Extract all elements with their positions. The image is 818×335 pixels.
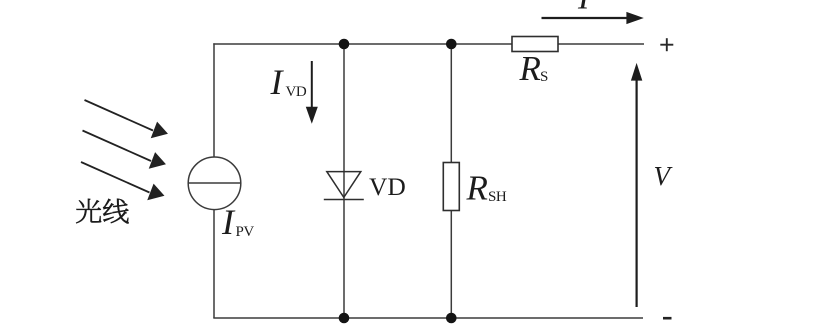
current source chord line xyxy=(188,182,241,184)
wire top bus from left branch to Rs xyxy=(213,43,512,45)
svg-text:R: R xyxy=(466,169,488,208)
wire top bus from Rs to + terminal xyxy=(558,43,644,45)
svg-text:I: I xyxy=(270,62,285,102)
diode VD cathode bar xyxy=(324,199,364,201)
terminal plus xyxy=(660,38,673,51)
current source IPV circle xyxy=(188,157,241,210)
light ray arrow 3 xyxy=(81,162,163,199)
terminal minus xyxy=(663,317,672,320)
label 光线 (drawn glyph outlines) xyxy=(76,199,128,224)
svg-text:VD: VD xyxy=(369,172,406,201)
svg-text:PV: PV xyxy=(236,224,255,240)
wire left branch lower xyxy=(213,210,215,318)
diode branch wire lower xyxy=(343,199,345,318)
junction node bottom-left xyxy=(339,313,350,324)
light ray arrow 1 xyxy=(85,100,167,137)
shunt resistor branch wire upper xyxy=(450,44,452,163)
resistor RS body xyxy=(512,37,558,52)
resistor RSH body xyxy=(443,163,459,211)
diode branch wire upper xyxy=(343,44,345,199)
wire bottom bus xyxy=(213,317,643,319)
diode VD triangle xyxy=(327,172,361,198)
svg-text:R: R xyxy=(519,49,541,88)
voltage V arrow xyxy=(632,67,640,308)
junction node top-right xyxy=(446,39,457,50)
shunt resistor branch wire lower xyxy=(450,211,452,319)
svg-text:I: I xyxy=(221,202,236,242)
svg-text:S: S xyxy=(540,69,548,85)
junction node top-left xyxy=(339,39,350,50)
IVD current arrow xyxy=(307,61,316,121)
svg-text:SH: SH xyxy=(488,189,507,205)
light ray arrow 2 xyxy=(83,131,165,168)
svg-text:I: I xyxy=(577,0,591,17)
svg-text:VD: VD xyxy=(286,84,307,100)
wire left branch upper xyxy=(213,43,215,157)
junction node bottom-right xyxy=(446,313,457,324)
output current I arrow xyxy=(542,13,641,22)
